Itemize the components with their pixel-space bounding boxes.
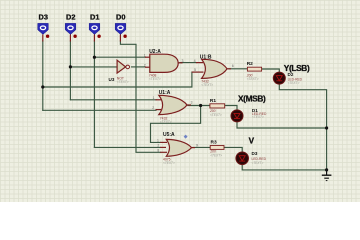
- svg-text:<TEXT>: <TEXT>: [117, 80, 129, 84]
- junction node U1:A out: [199, 104, 202, 107]
- svg-text:1: 1: [144, 53, 146, 57]
- svg-text:D3: D3: [252, 151, 258, 156]
- svg-text:U1:A: U1:A: [159, 90, 171, 96]
- svg-text:<TEXT>: <TEXT>: [288, 81, 300, 85]
- svg-text:X(MSB): X(MSB): [238, 94, 266, 104]
- wire NOT output to U2:A pin2: [132, 66, 146, 68]
- svg-text:1: 1: [157, 139, 159, 143]
- inverter U3: [109, 60, 130, 84]
- svg-text:<TEXT>: <TEXT>: [210, 113, 222, 117]
- wire LED D1 to ground rail: [237, 122, 327, 128]
- wire U1:B out to R2: [229, 68, 247, 70]
- logic input D3: [38, 13, 50, 42]
- svg-text:<TEXT>: <TEXT>: [160, 120, 172, 124]
- svg-text:<TEXT>: <TEXT>: [163, 161, 175, 165]
- svg-text:U5:A: U5:A: [163, 132, 175, 138]
- junction node D3/U1:B: [41, 85, 44, 88]
- wire LED D3 to ground rail: [242, 164, 326, 170]
- resistor R1: [209, 98, 225, 117]
- svg-text:<TEXT>: <TEXT>: [252, 115, 264, 119]
- svg-text:1: 1: [153, 96, 155, 100]
- wire R3 to LED D3: [224, 147, 242, 152]
- LED D1 (X MSB): [231, 94, 267, 122]
- wire U2:A out to U1:B pin4: [180, 62, 196, 64]
- wire D2 to U1:A pin1: [70, 99, 156, 101]
- resistor R2: [246, 61, 262, 81]
- resistor R3: [209, 140, 224, 158]
- svg-text:D0: D0: [116, 13, 125, 22]
- wire D3 to U1:A pin2: [43, 109, 156, 111]
- wire D1 to U2:A pin1: [94, 56, 145, 58]
- svg-text:3: 3: [182, 59, 184, 63]
- wire D3 net vertical: [42, 41, 44, 110]
- svg-text:U1:B: U1:B: [200, 55, 212, 61]
- svg-text:V: V: [249, 137, 255, 146]
- svg-text:R1: R1: [210, 98, 216, 104]
- wire D3 to U1:B pin5: [43, 72, 192, 87]
- OR gate U5:A (3-input): [157, 132, 198, 165]
- svg-text:<TEXT>: <TEXT>: [201, 83, 213, 87]
- svg-text:D1: D1: [90, 13, 99, 22]
- svg-text:R2: R2: [247, 61, 253, 67]
- svg-text:8: 8: [157, 149, 159, 153]
- wire D0 net: [120, 41, 160, 152]
- junction node D2/NOT: [69, 65, 72, 68]
- LED D2 (Y LSB): [273, 63, 310, 85]
- wire U1:A out to R1: [188, 105, 210, 107]
- logic input D1: [89, 13, 101, 42]
- wire D2 net vertical: [69, 41, 71, 100]
- svg-text:5: 5: [194, 68, 196, 72]
- svg-text:<TEXT>: <TEXT>: [149, 77, 161, 81]
- svg-text:R3: R3: [211, 140, 217, 146]
- OR gate U1:A: [152, 90, 192, 124]
- wire LED D2 to ground rail: [279, 84, 326, 170]
- AND gate U2:A: [144, 49, 184, 81]
- wire R1 to LED D1: [225, 106, 237, 110]
- wire D1 net vertical: [93, 41, 95, 147]
- ground: [322, 170, 332, 181]
- svg-text:U2:A: U2:A: [149, 49, 161, 55]
- svg-text:<TEXT>: <TEXT>: [252, 161, 264, 165]
- wire R2 to LED D2: [262, 69, 279, 72]
- svg-text:<TEXT>: <TEXT>: [247, 77, 259, 81]
- junction node LED D1 / ground rail: [325, 126, 328, 129]
- svg-text:2: 2: [152, 106, 154, 110]
- wire U5:A out to R3: [193, 146, 210, 148]
- svg-text:D3: D3: [39, 13, 48, 22]
- svg-text:D2: D2: [66, 13, 75, 22]
- svg-text:2: 2: [157, 144, 159, 148]
- svg-text:3: 3: [191, 101, 193, 105]
- svg-text:6: 6: [232, 64, 234, 68]
- node marker (blue) at U5:A output: [184, 135, 188, 139]
- junction node LED D3 / ground rail: [325, 168, 328, 171]
- svg-text:9: 9: [196, 144, 198, 148]
- svg-text:4: 4: [194, 59, 196, 63]
- svg-text:<TEXT>: <TEXT>: [210, 153, 222, 157]
- junction node D1/U2:A: [93, 56, 96, 59]
- svg-text:U3: U3: [109, 77, 115, 82]
- logic input D2: [65, 13, 77, 42]
- wire U1:A out branch to U5:A pin1: [151, 106, 201, 143]
- LED D3 (V): [236, 137, 267, 165]
- logic input D0: [115, 13, 127, 42]
- wire D2 to NOT input: [70, 66, 117, 68]
- svg-text:2: 2: [144, 63, 146, 67]
- wire D1 to U5:A pin2: [94, 146, 160, 148]
- OR gate U1:B: [192, 55, 234, 87]
